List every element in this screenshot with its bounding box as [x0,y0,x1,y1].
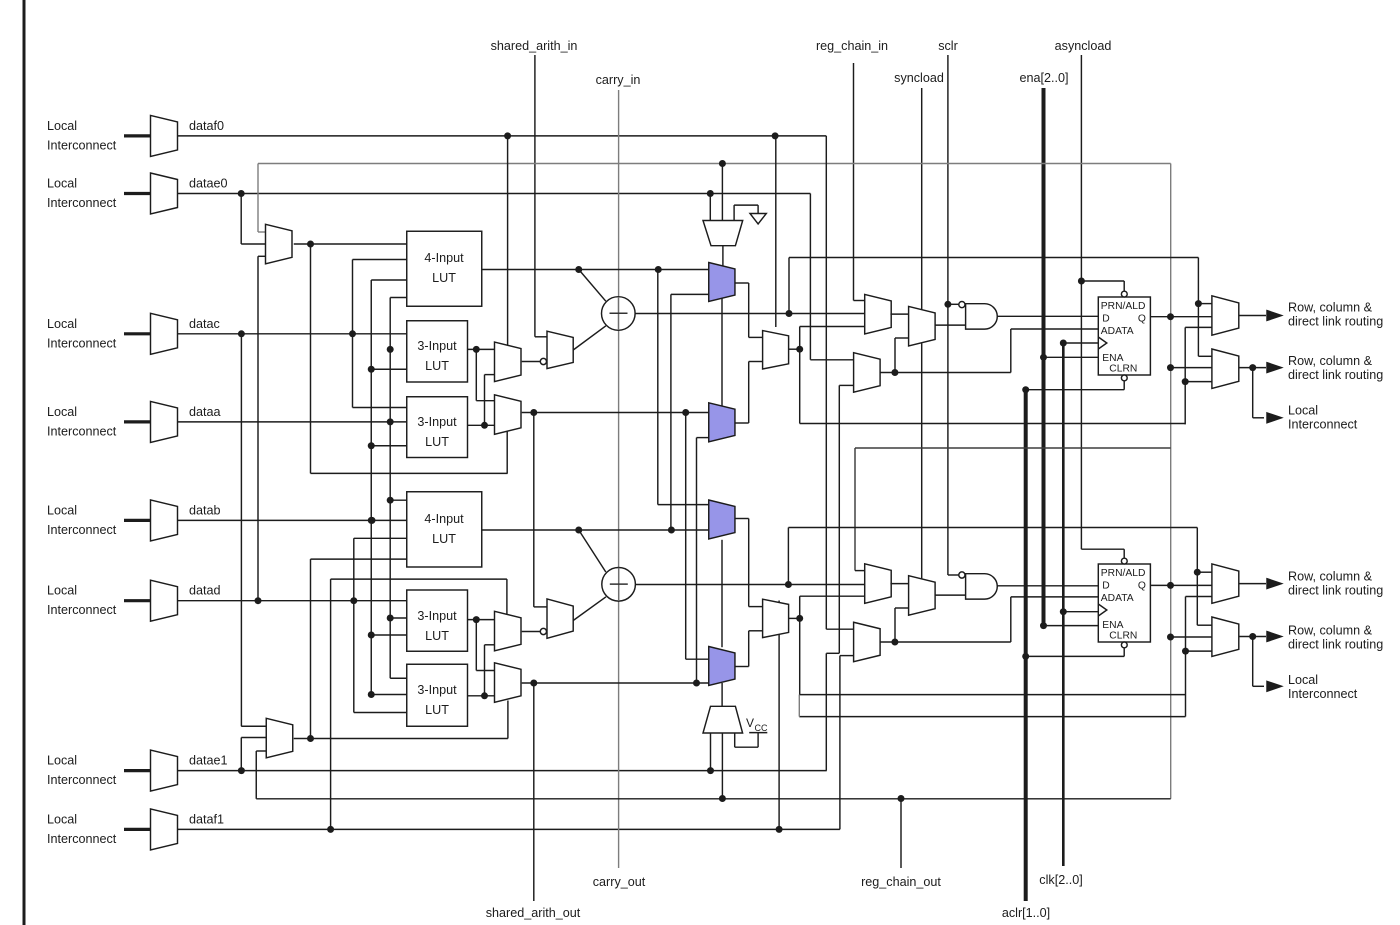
svg-text:ena[2..0]: ena[2..0] [1019,71,1068,85]
svg-text:direct link routing: direct link routing [1288,638,1383,652]
svg-text:direct link routing: direct link routing [1288,584,1383,598]
svg-text:dataa: dataa [189,405,221,419]
svg-text:Row, column &: Row, column & [1288,624,1373,638]
svg-text:reg_chain_out: reg_chain_out [861,875,941,889]
svg-text:ADATA: ADATA [1101,593,1134,604]
svg-text:PRN/ALD: PRN/ALD [1101,568,1146,579]
svg-text:asyncload: asyncload [1055,39,1112,53]
svg-text:D: D [1102,581,1109,592]
svg-text:sclr: sclr [938,39,958,53]
svg-text:4-Input: 4-Input [424,512,464,526]
svg-text:dataf0: dataf0 [189,119,224,133]
svg-text:Local: Local [47,405,77,419]
svg-text:Row, column &: Row, column & [1288,354,1373,368]
svg-text:Q: Q [1138,581,1146,592]
svg-text:CC: CC [755,723,768,733]
svg-text:Local: Local [47,177,77,191]
svg-text:aclr[1..0]: aclr[1..0] [1002,906,1050,920]
svg-text:Interconnect: Interconnect [47,196,117,210]
svg-text:Interconnect: Interconnect [47,336,117,350]
svg-text:3-Input: 3-Input [417,415,457,429]
svg-text:Interconnect: Interconnect [47,603,117,617]
svg-text:carry_out: carry_out [593,875,646,889]
svg-text:Interconnect: Interconnect [47,138,117,152]
svg-text:syncload: syncload [894,71,944,85]
svg-text:dataf1: dataf1 [189,812,224,826]
svg-text:ADATA: ADATA [1101,326,1134,337]
svg-text:clk[2..0]: clk[2..0] [1039,873,1082,887]
svg-text:shared_arith_in: shared_arith_in [491,39,578,53]
svg-text:Local: Local [47,754,77,768]
svg-text:3-Input: 3-Input [417,339,457,353]
svg-text:D: D [1102,314,1109,325]
svg-text:LUT: LUT [432,271,456,285]
svg-text:Q: Q [1138,314,1146,325]
svg-text:LUT: LUT [425,359,449,373]
svg-text:direct link routing: direct link routing [1288,315,1383,329]
svg-text:LUT: LUT [432,532,456,546]
svg-text:Local: Local [47,812,77,826]
svg-text:Row, column &: Row, column & [1288,301,1373,315]
svg-text:ENA: ENA [1102,353,1123,364]
svg-text:LUT: LUT [425,703,449,717]
svg-text:LUT: LUT [425,629,449,643]
svg-text:ENA: ENA [1102,620,1123,631]
svg-text:Local: Local [47,317,77,331]
svg-text:Local: Local [47,584,77,598]
svg-text:datae0: datae0 [189,177,228,191]
svg-text:4-Input: 4-Input [424,251,464,265]
svg-text:Row, column &: Row, column & [1288,570,1373,584]
svg-text:Interconnect: Interconnect [1288,418,1358,432]
svg-text:Interconnect: Interconnect [47,832,117,846]
svg-text:datae1: datae1 [189,754,228,768]
svg-text:datad: datad [189,584,221,598]
svg-text:Local: Local [1288,673,1318,687]
svg-text:Local: Local [47,119,77,133]
svg-text:3-Input: 3-Input [417,609,457,623]
svg-text:Interconnect: Interconnect [47,424,117,438]
svg-text:3-Input: 3-Input [417,683,457,697]
svg-text:Interconnect: Interconnect [1288,687,1358,701]
svg-text:PRN/ALD: PRN/ALD [1101,301,1146,312]
svg-text:Interconnect: Interconnect [47,523,117,537]
svg-text:Local: Local [47,503,77,517]
svg-text:direct link routing: direct link routing [1288,368,1383,382]
svg-text:CLRN: CLRN [1109,631,1137,642]
svg-text:carry_in: carry_in [596,73,641,87]
svg-text:Local: Local [1288,404,1318,418]
svg-text:reg_chain_in: reg_chain_in [816,39,888,53]
svg-text:datac: datac [189,317,220,331]
svg-text:datab: datab [189,503,221,517]
svg-text:LUT: LUT [425,435,449,449]
svg-text:shared_arith_out: shared_arith_out [486,906,581,920]
svg-text:CLRN: CLRN [1109,364,1137,375]
svg-text:V: V [746,716,754,730]
svg-text:Interconnect: Interconnect [47,773,117,787]
